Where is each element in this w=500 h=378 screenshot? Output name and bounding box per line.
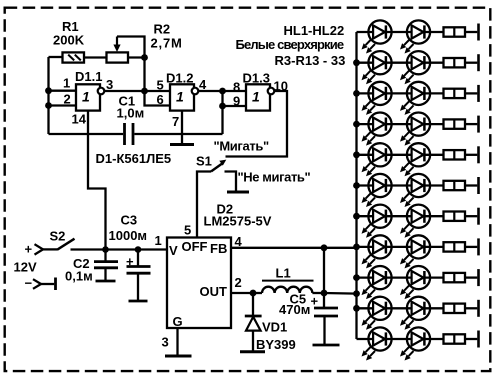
node D1.1 output / D1.2 input bbox=[141, 88, 148, 95]
common bus bar row 3 bbox=[477, 85, 480, 102]
wire resistor R5 to common bus bbox=[465, 92, 477, 94]
svg-text:470м: 470м bbox=[279, 302, 310, 317]
node D1.3 pin 9 tie bbox=[219, 103, 226, 110]
label LED group bbox=[236, 23, 346, 68]
wire +12V rail to D2 pin 1 bbox=[71, 248, 168, 250]
wire LED row 4 feed bbox=[357, 123, 444, 125]
svg-text:8: 8 bbox=[233, 80, 240, 95]
LED HL8 bbox=[400, 113, 430, 146]
node D1.1 pin 1 bbox=[45, 87, 52, 94]
LED HL12 bbox=[400, 174, 430, 207]
wire D1.3 pin 8 bbox=[223, 90, 247, 92]
wire VD1 node to L1 bbox=[253, 292, 262, 294]
wire C1 right bbox=[135, 133, 223, 135]
svg-text:−: − bbox=[25, 276, 33, 291]
wire resistor R3 to common bus bbox=[465, 31, 477, 33]
svg-text:3: 3 bbox=[162, 335, 169, 350]
node D1.2 output / D1.3 input tie top bbox=[219, 88, 226, 95]
resistor R12 bbox=[444, 304, 466, 313]
svg-text:V: V bbox=[169, 243, 178, 258]
LED HL16 bbox=[400, 235, 430, 268]
svg-text:FB: FB bbox=[210, 241, 227, 256]
svg-text:"Не мигать": "Не мигать" bbox=[238, 170, 311, 185]
node LED rail row junction bbox=[353, 244, 360, 251]
wire LED anode rail bbox=[355, 32, 357, 339]
LED HL19 bbox=[362, 297, 392, 330]
LED HL5 bbox=[362, 82, 392, 115]
svg-text:S2: S2 bbox=[50, 229, 66, 244]
svg-text:R3-R13 - 33: R3-R13 - 33 bbox=[275, 53, 346, 68]
wire LED row 1 feed bbox=[357, 31, 444, 33]
label Migat bbox=[214, 139, 270, 154]
common bus bar row 9 bbox=[477, 269, 480, 286]
svg-text:+: + bbox=[25, 242, 33, 257]
svg-text:1: 1 bbox=[252, 89, 260, 105]
wire FB node down through OUT node to C5 bbox=[323, 248, 325, 308]
wire D1.1 input column bbox=[47, 57, 49, 134]
svg-text:OUT: OUT bbox=[200, 284, 228, 299]
label D1 type bbox=[96, 151, 172, 166]
svg-text:1: 1 bbox=[82, 89, 90, 105]
node LED rail row junction bbox=[353, 121, 360, 128]
svg-text:6: 6 bbox=[157, 92, 164, 107]
wire D1.1 pin 2 bbox=[49, 104, 77, 106]
switch S1 bbox=[196, 154, 226, 238]
resistor R8 bbox=[444, 181, 466, 190]
wire LED row 7 feed bbox=[357, 215, 444, 217]
svg-text:2: 2 bbox=[64, 92, 71, 107]
resistor R5 bbox=[444, 89, 466, 98]
common bus bar row 6 bbox=[477, 177, 480, 194]
svg-text:OFF: OFF bbox=[182, 239, 208, 254]
wire D1.3 output pin 10 to S1 contact bbox=[226, 91, 288, 157]
LED HL13 bbox=[362, 205, 392, 238]
ground D2 pin 3 G bbox=[165, 328, 192, 356]
LED HL15 bbox=[362, 235, 392, 268]
svg-text:5: 5 bbox=[184, 223, 191, 238]
svg-text:D1-К561ЛЕ5: D1-К561ЛЕ5 bbox=[96, 151, 172, 166]
wire resistor R10 to common bus bbox=[465, 246, 477, 248]
wire LED row 5 feed bbox=[357, 154, 444, 156]
wire D1.2 pin 6 tie bbox=[145, 91, 171, 106]
resistor R4 bbox=[444, 58, 466, 67]
svg-text:9: 9 bbox=[233, 94, 240, 109]
wire OUT node to LED rail bbox=[324, 292, 357, 295]
resistor R10 bbox=[444, 242, 466, 251]
inverter D1.2 bbox=[157, 71, 208, 130]
wire L1 to C5 node bbox=[312, 292, 324, 294]
node C3 junction bbox=[135, 246, 142, 253]
capacitor C2 bbox=[65, 250, 118, 284]
LED HL22 bbox=[400, 327, 430, 360]
node LED rail row junction bbox=[353, 59, 360, 66]
wire LED row 6 feed bbox=[357, 184, 444, 186]
svg-text:D1.2: D1.2 bbox=[166, 71, 193, 86]
switch S2 bbox=[50, 229, 75, 250]
connector +12V input bbox=[14, 242, 44, 275]
wire LED row 2 feed bbox=[357, 62, 444, 64]
common bus bar row 5 bbox=[477, 146, 480, 163]
svg-text:Белые сверхяркие: Белые сверхяркие bbox=[236, 37, 344, 52]
LED HL7 bbox=[362, 113, 392, 146]
LED HL4 bbox=[400, 51, 430, 84]
wire resistor R6 to common bus bbox=[465, 123, 477, 125]
node R2 output bbox=[141, 54, 148, 61]
wire resistor R8 to common bus bbox=[465, 184, 477, 186]
wire D1.2 pin 5 bbox=[145, 90, 171, 92]
wire D1 pin 14 to +12V rail bbox=[88, 111, 106, 250]
wire D1.1 pin 1 bbox=[49, 90, 77, 92]
LED HL2 bbox=[400, 20, 430, 53]
label Ne migat bbox=[238, 170, 311, 185]
resistor R9 bbox=[444, 212, 466, 221]
svg-text:BY399: BY399 bbox=[256, 337, 296, 352]
wire D2 FB pin 4 to LED rail (row 8 feed) bbox=[231, 247, 357, 249]
LED HL1 bbox=[362, 20, 392, 53]
resistor R6 bbox=[444, 119, 466, 128]
wire R2 right lead bbox=[128, 56, 145, 58]
node C2 junction bbox=[102, 246, 109, 253]
LED HL10 bbox=[400, 143, 430, 176]
svg-text:D1.1: D1.1 bbox=[75, 69, 102, 84]
wire resistor R11 to common bus bbox=[465, 276, 477, 278]
svg-text:1: 1 bbox=[63, 76, 70, 91]
wire LED row 8 feed bbox=[357, 246, 444, 248]
wire resistor R13 to common bus bbox=[465, 338, 477, 340]
node FB / C5 top bbox=[321, 244, 328, 251]
wire resistor R4 to common bus bbox=[465, 62, 477, 64]
connector -12V input bbox=[25, 276, 42, 291]
svg-text:1,0м: 1,0м bbox=[117, 106, 145, 121]
common bus bar row 4 bbox=[477, 116, 480, 133]
svg-text:12V: 12V bbox=[14, 260, 37, 275]
capacitor C5 bbox=[279, 292, 340, 346]
resistor R7 bbox=[444, 150, 466, 159]
common bus bar row 8 bbox=[477, 238, 480, 255]
svg-text:1000м: 1000м bbox=[109, 228, 148, 243]
svg-text:+: + bbox=[311, 294, 319, 309]
common bus bar row 10 bbox=[477, 300, 480, 317]
wire C1 right plate to D1.3 inputs bbox=[221, 91, 223, 134]
svg-text:HL1-HL22: HL1-HL22 bbox=[284, 23, 345, 38]
node LED rail row junction bbox=[353, 151, 360, 158]
svg-text:C3: C3 bbox=[121, 213, 138, 228]
svg-text:200K: 200K bbox=[53, 33, 85, 48]
svg-text:R2: R2 bbox=[154, 22, 171, 37]
LED HL17 bbox=[362, 266, 392, 299]
svg-text:2: 2 bbox=[235, 275, 242, 290]
wire R2 wiper to right terminal bbox=[117, 37, 145, 58]
node D1.1 pin 2 bbox=[45, 102, 52, 109]
inverter D1.3 bbox=[233, 71, 288, 111]
common bus bar row 2 bbox=[477, 54, 480, 71]
LED HL21 bbox=[362, 327, 392, 360]
wire D2 OUT pin 2 bbox=[231, 292, 253, 294]
common bus bar row 7 bbox=[477, 208, 480, 225]
svg-text:4: 4 bbox=[199, 77, 207, 92]
wire D1.3 pin 9 bbox=[223, 105, 247, 107]
ground D1 pin 7 bbox=[170, 111, 194, 145]
wire R1 to R2 bbox=[84, 56, 107, 58]
wire LED row 10 feed bbox=[357, 307, 444, 309]
svg-text:S1: S1 bbox=[196, 154, 212, 169]
node LED rail row junction bbox=[353, 182, 360, 189]
svg-text:0,1м: 0,1м bbox=[65, 269, 93, 284]
resistor R13 bbox=[444, 334, 466, 343]
svg-text:"Мигать": "Мигать" bbox=[214, 139, 270, 154]
capacitor C3 bbox=[109, 213, 151, 302]
wire C1 left bbox=[49, 133, 124, 135]
capacitor C1 bbox=[117, 94, 145, 146]
wire resistor R9 to common bus bbox=[465, 215, 477, 217]
node LED rail row junction bbox=[353, 305, 360, 312]
common bus bar row 1 bbox=[477, 24, 480, 41]
wire resistor R7 to common bus bbox=[465, 154, 477, 156]
inverter D1.1 bbox=[63, 69, 113, 127]
node OUT joins LED rail bbox=[353, 290, 360, 297]
contact S1 ne-migat to ground bbox=[225, 172, 250, 193]
resistor R1 bbox=[53, 19, 85, 63]
wire LED row 9 feed bbox=[357, 276, 444, 278]
regulator D2 LM2575-5V bbox=[155, 202, 272, 350]
LED HL3 bbox=[362, 51, 392, 84]
resistor R3 bbox=[444, 27, 466, 36]
wire R2 node down to D1.1 output net bbox=[143, 58, 145, 92]
common bus bar row 11 bbox=[477, 331, 480, 348]
wire +input to S2 bbox=[43, 248, 57, 250]
wire resistor R12 to common bus bbox=[465, 307, 477, 309]
svg-text:VD1: VD1 bbox=[262, 320, 287, 335]
resistor R11 bbox=[444, 273, 466, 282]
diode VD1 bbox=[240, 293, 296, 352]
svg-text:1: 1 bbox=[176, 89, 184, 105]
svg-text:7: 7 bbox=[172, 114, 179, 129]
wire -input to common bar bbox=[41, 278, 56, 291]
svg-text:L1: L1 bbox=[276, 266, 291, 281]
node LED rail row junction bbox=[353, 274, 360, 281]
svg-text:2,7M: 2,7M bbox=[151, 36, 183, 51]
svg-text:G: G bbox=[173, 314, 183, 329]
node VD1 junction bbox=[250, 290, 257, 297]
wire R1 left lead bbox=[49, 56, 63, 58]
node LED rail row junction bbox=[353, 90, 360, 97]
inductor L1 bbox=[262, 266, 314, 294]
wire D1.1 output pin 3 bbox=[104, 90, 144, 92]
LED HL18 bbox=[400, 266, 430, 299]
LED HL11 bbox=[362, 174, 392, 207]
LED HL9 bbox=[362, 143, 392, 176]
svg-text:D1.3: D1.3 bbox=[243, 71, 270, 86]
trimmer R2 bbox=[107, 22, 183, 63]
LED HL6 bbox=[400, 82, 430, 115]
svg-text:+: + bbox=[126, 254, 134, 269]
wire LED row 11 feed bbox=[357, 338, 444, 340]
svg-text:3: 3 bbox=[106, 77, 113, 92]
wire LED row 3 feed bbox=[357, 92, 444, 94]
node LED rail row junction bbox=[353, 213, 360, 220]
LED HL14 bbox=[400, 205, 430, 238]
svg-text:1: 1 bbox=[155, 233, 162, 248]
LED HL20 bbox=[400, 297, 430, 330]
svg-text:14: 14 bbox=[72, 112, 87, 127]
node C5 / OUT junction bbox=[321, 290, 328, 297]
svg-text:LM2575-5V: LM2575-5V bbox=[204, 214, 272, 229]
wire D1.2 output pin 4 bbox=[198, 90, 222, 92]
